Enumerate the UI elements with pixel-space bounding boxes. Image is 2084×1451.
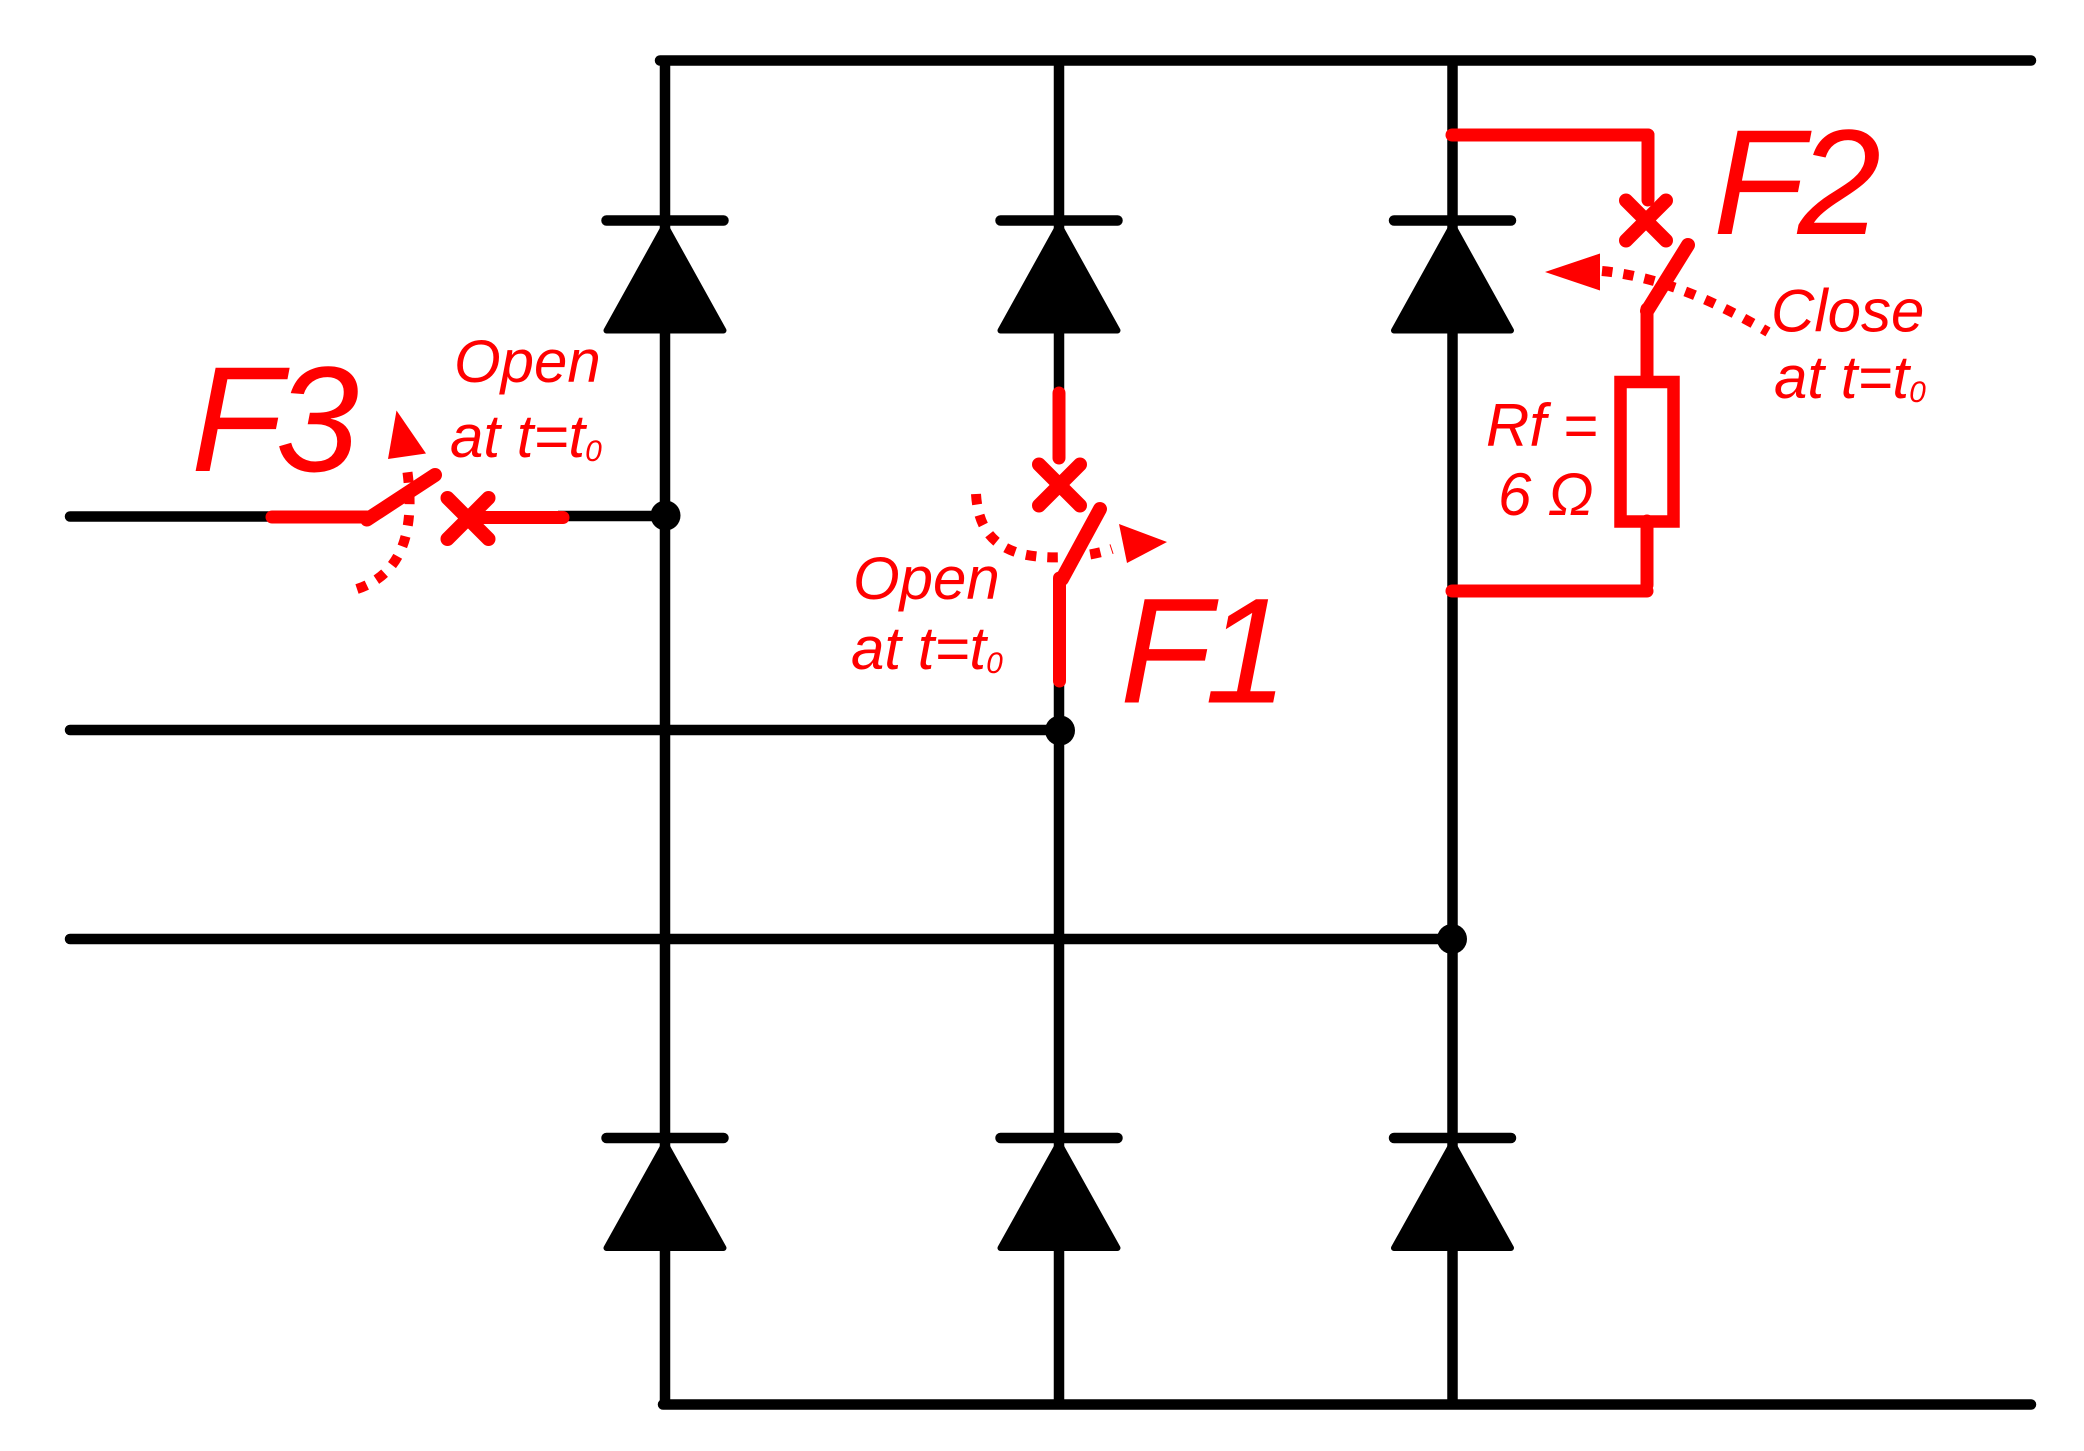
node B junction dot [1045, 716, 1075, 746]
label Rf value line 2 "6 ohm" [1498, 461, 1594, 528]
wire left bridge leg [660, 57, 671, 1408]
wire phase A to node A [558, 511, 665, 522]
svg-text:at t=t0: at t=t0 [1774, 344, 1926, 411]
wire phase C input [70, 934, 1452, 945]
label F1 [1120, 567, 1281, 735]
diode D3 top-middle [1001, 221, 1118, 331]
fault switch F3 motion arrowhead [388, 411, 426, 460]
svg-text:Open: Open [853, 545, 1000, 612]
wire right bridge leg [1447, 57, 1458, 1408]
fault switch F1 opening motion dashed arc [976, 494, 1112, 557]
label F3 [191, 335, 359, 503]
diode D5 top-right [1394, 221, 1511, 331]
fault switch F1 lower lead wire [1053, 578, 1066, 681]
fault switch F1 X contact mark [1039, 465, 1080, 506]
fault switch F1 motion arrowhead [1119, 524, 1167, 563]
fault switch F1 upper lead wire [1053, 393, 1066, 458]
svg-text:at t=t0: at t=t0 [851, 615, 1003, 682]
fault switch F3 blade [367, 475, 435, 520]
fault switch F1 blade [1062, 509, 1100, 579]
fault switch F3 left lead wire [272, 511, 367, 524]
label F3 action line 2 "at t=t0" [450, 403, 602, 470]
diode D1 top-left [607, 221, 724, 331]
fault switch F2 closing motion dashed arc [1602, 271, 1768, 332]
svg-text:Close: Close [1771, 278, 1924, 345]
wire phase B input [70, 725, 1059, 736]
svg-text:F2: F2 [1713, 98, 1880, 266]
label F1 action line 2 "at t=t0" [851, 615, 1003, 682]
svg-text:F1: F1 [1120, 567, 1281, 735]
node A junction dot [651, 501, 681, 531]
label F2 [1713, 98, 1880, 266]
label F2 action line 1 "Close" [1771, 278, 1924, 345]
fault switch F3 opening motion dashed arc [357, 462, 410, 589]
wire phase A input [70, 511, 278, 522]
svg-text:at t=t0: at t=t0 [450, 403, 602, 470]
fault switch F2 motion arrowhead [1545, 254, 1600, 291]
svg-text:Open: Open [454, 328, 601, 395]
wire middle bridge leg lower [1054, 680, 1065, 1408]
fault switch F3 X contact mark [448, 498, 489, 539]
diode D4 bottom-middle [1001, 1138, 1118, 1248]
diode D2 bottom-left [607, 1138, 724, 1248]
fault branch F2 top wire [1452, 129, 1648, 142]
label Rf value line 1 "Rf =" [1486, 392, 1598, 459]
wire top DC bus [660, 55, 2031, 66]
svg-text:Rf =: Rf = [1486, 392, 1598, 459]
fault switch F2 blade [1647, 245, 1688, 311]
label F1 action line 1 "Open" [853, 545, 1000, 612]
node C junction dot [1437, 924, 1467, 954]
fault branch F2 wire blade to resistor [1641, 309, 1654, 378]
wire middle bridge leg upper [1054, 57, 1065, 393]
svg-text:F3: F3 [191, 335, 359, 503]
fault switch F2 X contact mark [1626, 201, 1666, 241]
wire bottom DC bus [663, 1399, 2031, 1410]
label F3 action line 1 "Open" [454, 328, 601, 395]
label F2 action line 2 "at t=t0" [1774, 344, 1926, 411]
fault branch F2 wire resistor to bottom [1641, 521, 1654, 585]
resistor Rf body [1621, 382, 1674, 522]
fault branch F2 upper vertical lead [1642, 135, 1655, 200]
fault switch F3 right lead wire [469, 511, 563, 524]
diode D6 bottom-right [1394, 1138, 1511, 1248]
fault branch F2 bottom wire [1452, 585, 1647, 598]
svg-text:6 Ω: 6 Ω [1498, 461, 1594, 528]
